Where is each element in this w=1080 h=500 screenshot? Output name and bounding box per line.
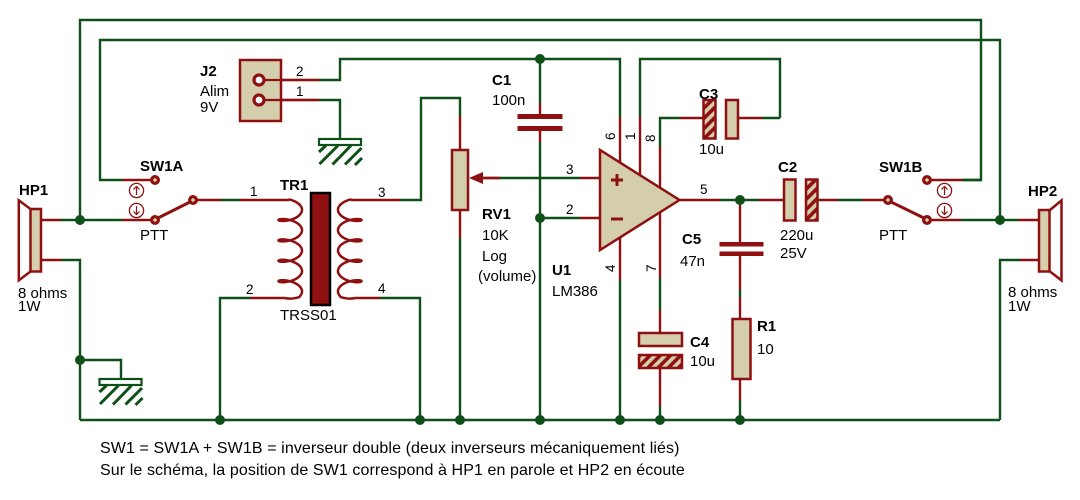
switch SW1B — [883, 175, 952, 225]
wire op-amp pin 4 stub — [619, 238, 621, 280]
node HP1 / SW1A — [75, 215, 85, 225]
wire pin1-C3 top link — [640, 59, 780, 118]
svg-text:2: 2 — [566, 202, 574, 217]
svg-text:5: 5 — [700, 182, 708, 197]
svg-text:Alim: Alim — [200, 83, 229, 100]
svg-text:4: 4 — [603, 264, 618, 272]
svg-text:1W: 1W — [1008, 298, 1031, 315]
svg-text:SW1B: SW1B — [879, 159, 923, 176]
op-amp U1 — [600, 150, 680, 250]
wire SW1A lever pin stub — [197, 199, 221, 201]
wire C3 right — [762, 117, 780, 119]
wire HP1 top — [61, 219, 122, 221]
wire TR1 pin 3 stub — [351, 199, 400, 201]
wire C2 pin stubs — [759, 199, 784, 201]
svg-text:R1: R1 — [757, 318, 776, 335]
svg-text:25V: 25V — [780, 245, 807, 262]
svg-text:3: 3 — [566, 162, 574, 177]
wire C5 to R1 — [739, 290, 741, 297]
svg-text:100n: 100n — [492, 92, 525, 109]
wire op-amp pin 1 stub — [639, 117, 641, 176]
wire C5 pin stubs — [739, 202, 741, 242]
potentiometer RV1 — [452, 150, 500, 210]
wire SW1B top pin — [962, 179, 981, 181]
node bus TR1 pin 4 — [415, 415, 425, 425]
wire C1 pin stubs — [539, 103, 541, 114]
svg-text:10u: 10u — [690, 353, 715, 370]
svg-text:1W: 1W — [18, 298, 41, 315]
svg-text:8: 8 — [643, 134, 658, 142]
svg-text:LM386: LM386 — [552, 283, 598, 300]
wire op-amp pin 8 stub — [659, 147, 661, 188]
svg-text:2: 2 — [246, 282, 254, 297]
capacitor C2 — [784, 180, 818, 221]
wire top rail 1 — [80, 20, 981, 220]
node HP1 / ground — [75, 355, 85, 365]
svg-text:1: 1 — [623, 132, 638, 140]
wire ground tap left — [80, 360, 121, 379]
wire HP1 bottom to bus — [62, 260, 80, 420]
wire SW1B common pin stub — [862, 199, 884, 201]
wire op-amp pin 4 to bus — [619, 280, 621, 420]
wire SW1B top pin stub — [931, 179, 962, 181]
svg-text:1: 1 — [296, 84, 304, 99]
node 9V rail / C1 — [535, 54, 545, 64]
wire HP2 bottom to bus — [1000, 260, 1020, 420]
wire R1 pin stubs — [739, 297, 741, 319]
node output / C5 — [735, 195, 745, 205]
wire J2 pin 2 stub — [265, 79, 319, 81]
wire TR1 pin 2 stub — [250, 297, 285, 299]
wire TR1 pin 4 stub — [355, 297, 380, 299]
ground near J2 — [319, 139, 362, 165]
svg-text:10K: 10K — [482, 227, 509, 244]
svg-text:C4: C4 — [690, 334, 710, 351]
svg-text:3: 3 — [378, 185, 386, 200]
svg-text:U1: U1 — [552, 262, 571, 279]
wire op-amp output — [720, 199, 759, 201]
wire 9V rail from J2 pin 2 — [319, 59, 620, 117]
svg-text:C1: C1 — [492, 72, 511, 89]
wire J2 pin 1 stub — [265, 99, 319, 101]
svg-text:10: 10 — [757, 341, 774, 358]
wire op-amp pin 6 stub — [619, 117, 621, 163]
svg-text:PTT: PTT — [879, 227, 907, 244]
svg-text:HP1: HP1 — [19, 182, 48, 199]
node bus TR1 pin 2 — [215, 415, 225, 425]
svg-text:C2: C2 — [778, 159, 797, 176]
node bus pin 4 — [615, 415, 625, 425]
svg-text:TR1: TR1 — [280, 177, 308, 194]
wire TR1 pin 3 to RV1 — [400, 98, 460, 200]
capacitor C1 — [518, 114, 563, 131]
node bus RV1 — [455, 415, 465, 425]
svg-text:PTT: PTT — [140, 227, 168, 244]
wire SW1A top pin stub — [122, 179, 151, 181]
svg-text:2: 2 — [296, 64, 304, 79]
wire ground bus — [80, 419, 1000, 421]
node bus C4 — [655, 415, 665, 425]
transformer TR1 — [279, 193, 362, 305]
wire op-amp pin 5 stub — [680, 199, 720, 201]
wire C2 to SW1B — [838, 199, 862, 201]
wire TR1 pin 1 stub — [240, 199, 289, 201]
svg-text:1: 1 — [250, 184, 258, 199]
wire op-amp pin 7 — [659, 278, 661, 310]
wire SW1B lever pin stub — [931, 219, 961, 221]
svg-text:7: 7 — [644, 264, 659, 272]
svg-text:J2: J2 — [200, 63, 217, 80]
switch SW1A — [129, 175, 198, 225]
speaker HP2 — [1039, 200, 1062, 280]
node C1 / op-amp pin 2 — [535, 213, 545, 223]
svg-text:HP2: HP2 — [1028, 183, 1057, 200]
wire pin8 to C3 — [660, 118, 680, 147]
wire RV1 wiper to op-amp pin 3 — [500, 177, 580, 179]
wire J2 pin 1 to ground — [319, 100, 340, 140]
ground bottom left — [100, 379, 143, 405]
svg-text:Log: Log — [482, 248, 507, 265]
svg-text:4: 4 — [378, 281, 386, 296]
wire top rail 2 — [100, 40, 1000, 220]
wire TR1 pin 2 to bus — [220, 298, 250, 420]
wire HP2 pin stubs — [1018, 219, 1039, 221]
node bus R1 — [735, 415, 745, 425]
wire HP1 pin stubs — [41, 219, 61, 221]
svg-text:Sur le schéma, la position de: Sur le schéma, la position de SW1 corres… — [100, 462, 685, 479]
wire RV1 pin stubs — [459, 116, 461, 150]
svg-text:RV1: RV1 — [482, 206, 511, 223]
capacitor C5 — [720, 242, 764, 256]
svg-text:TRSS01: TRSS01 — [280, 307, 337, 324]
speaker HP1 — [19, 200, 41, 280]
wire SW1B bottom pin to HP2 — [961, 219, 1018, 221]
wire RV1 bottom to bus — [459, 238, 461, 420]
svg-text:9V: 9V — [200, 99, 218, 116]
node bus C1 — [535, 415, 545, 425]
wire C4 bottom to bus — [659, 406, 661, 420]
node SW1B / HP2 — [995, 215, 1005, 225]
resistor R1 — [733, 319, 751, 379]
capacitor C4 — [639, 333, 682, 368]
connector J2 — [240, 60, 319, 121]
wire op-amp pin 2 — [540, 217, 580, 219]
wire op-amp pin 7 stub — [659, 212, 661, 278]
svg-text:C5: C5 — [682, 231, 701, 248]
svg-text:47n: 47n — [680, 253, 705, 270]
svg-text:C3: C3 — [699, 86, 718, 103]
svg-text:SW1A: SW1A — [140, 158, 184, 175]
wire SW1A to TR1 pin 1 — [221, 199, 240, 201]
wire C3 pin stubs — [680, 117, 703, 119]
wire C1 bottom to bus — [539, 142, 541, 420]
svg-text:6: 6 — [603, 132, 618, 140]
wire op-amp pin 3 stub — [580, 177, 600, 179]
svg-text:10u: 10u — [699, 141, 724, 158]
wire C1 top — [539, 59, 541, 103]
capacitor C3 — [704, 100, 739, 139]
wire C4 pin stub — [659, 368, 661, 406]
wire R1 bottom to bus — [739, 400, 741, 420]
wire TR1 pin 4 to bus — [380, 298, 420, 420]
svg-text:220u: 220u — [780, 227, 813, 244]
svg-text:(volume): (volume) — [478, 268, 536, 285]
svg-text:SW1 = SW1A + SW1B = inverseur: SW1 = SW1A + SW1B = inverseur double (de… — [100, 440, 680, 457]
wire op-amp pin 2 stub — [580, 217, 600, 219]
